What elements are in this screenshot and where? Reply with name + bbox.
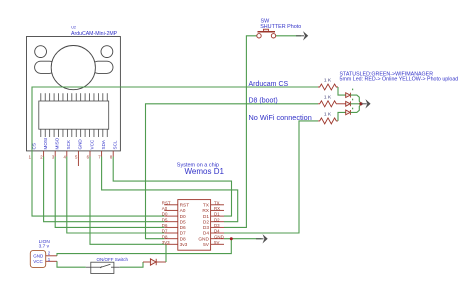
- wire camera VCC to 3V3: [90, 157, 164, 245]
- Wemos inside pin names right: [198, 203, 209, 249]
- wire camera SCL to D1: [113, 157, 231, 217]
- svg-text:U2: U2: [71, 26, 76, 30]
- Wemos inside pin names left: [180, 203, 190, 249]
- wire battery pin1 to switch: [57, 261, 86, 267]
- svg-text:D1: D1: [203, 214, 209, 220]
- svg-text:TX: TX: [203, 203, 210, 209]
- svg-text:SCK: SCK: [66, 139, 71, 149]
- svg-text:D8 (boot): D8 (boot): [249, 98, 278, 105]
- wire R3 to LED blue anode: [338, 112, 346, 121]
- camera module U2 body: [27, 37, 121, 151]
- svg-text:1 K: 1 K: [324, 78, 332, 84]
- wire R2 to LED green anode: [338, 103, 346, 105]
- resistor R1 1K: [318, 78, 338, 90]
- svg-text:GND: GND: [214, 234, 224, 239]
- svg-text:A0: A0: [162, 206, 168, 211]
- svg-text:5V: 5V: [214, 240, 219, 245]
- battery BT1: [30, 251, 45, 268]
- svg-text:GND: GND: [33, 253, 44, 258]
- note STATUSLED: [340, 72, 459, 83]
- svg-text:1 K: 1 K: [324, 94, 332, 100]
- svg-text:5V: 5V: [203, 242, 210, 248]
- battery pin numbers: [48, 250, 51, 262]
- svg-text:ON/OFF Switch: ON/OFF Switch: [97, 257, 129, 262]
- wire camera CS down to D0: [32, 157, 164, 217]
- svg-text:D7: D7: [180, 231, 186, 237]
- svg-text:ArduCAM-Mini-2MP: ArduCAM-Mini-2MP: [71, 31, 118, 37]
- svg-text:SDA: SDA: [101, 139, 106, 149]
- LED LED1 red element: [346, 93, 351, 98]
- junction LED cathode node: [359, 102, 362, 105]
- svg-text:A0: A0: [180, 208, 186, 214]
- svg-text:TX: TX: [214, 200, 220, 205]
- camera pin labels CS MOSI MISO SCK GND VCC SDA SCL: [31, 137, 117, 149]
- resistor R2 1K: [318, 94, 338, 107]
- wire SW to ground arrow: [276, 35, 301, 37]
- ground arrow at GND pin: [256, 234, 268, 243]
- switch S1 body: [86, 262, 120, 273]
- svg-text:SCL: SCL: [113, 140, 118, 149]
- svg-text:3.7 v: 3.7 v: [39, 244, 50, 250]
- camera module U2 label: [71, 26, 118, 37]
- svg-text:RX: RX: [214, 206, 220, 211]
- svg-text:VCC: VCC: [89, 139, 94, 149]
- svg-text:D6: D6: [180, 225, 186, 231]
- svg-text:3v3: 3v3: [180, 242, 188, 248]
- wire camera CS up to Arducam CS row: [32, 87, 318, 157]
- wire switch to diode: [120, 262, 143, 267]
- wire camera SCK to D7: [67, 157, 165, 234]
- camera pin stubs pins 1-8: [32, 151, 113, 166]
- wire camera MISO to D6: [55, 157, 164, 228]
- svg-text:Wemos D1: Wemos D1: [185, 167, 225, 176]
- wire D8 boot net: [146, 104, 319, 239]
- diode D1: [143, 259, 166, 265]
- LED pin number marks: [352, 89, 353, 110]
- wire diode to 3V3: [165, 244, 167, 262]
- svg-text:RX: RX: [202, 208, 209, 214]
- Wemos right pin stubs: [211, 205, 224, 245]
- svg-text:D2: D2: [214, 217, 220, 222]
- svg-text:MOSI: MOSI: [43, 138, 48, 150]
- svg-text:Arducam CS: Arducam CS: [249, 81, 289, 88]
- wire GND stub to arrow: [224, 238, 262, 240]
- svg-text:GND: GND: [78, 139, 83, 150]
- svg-text:MISO: MISO: [55, 137, 60, 149]
- Wemos D1 titles: [177, 163, 225, 176]
- wire LED cathodes to common node: [350, 95, 362, 112]
- wire battery pin2 to GND junction: [57, 239, 231, 256]
- svg-text:GND: GND: [198, 236, 209, 242]
- LED LED1 green element: [346, 101, 351, 106]
- pushbutton SW labels: [260, 18, 301, 29]
- wire SW to D3: [224, 36, 257, 228]
- resistor R3 1K: [318, 112, 338, 124]
- pushbutton SW: [257, 29, 276, 38]
- svg-text:1 K: 1 K: [324, 112, 332, 118]
- wire camera MOSI to D5: [44, 157, 165, 222]
- svg-text:No WiFi connection: No WiFi connection: [249, 113, 312, 122]
- ground arrow at LED: [361, 99, 371, 108]
- op-amp U1 Wemos D1 chip body: [178, 200, 211, 251]
- ground arrow at SW: [296, 31, 308, 40]
- wire camera SDA to D2: [102, 157, 238, 222]
- wire R1 to LED red anode: [338, 87, 346, 95]
- camera DIP connector: [39, 93, 109, 137]
- LED LED1 blue element: [346, 110, 351, 115]
- svg-text:VCC: VCC: [33, 259, 43, 264]
- camera pin numbers 1-8: [29, 155, 113, 160]
- wire D4 to No WiFi resistor: [224, 121, 318, 233]
- svg-text:D2: D2: [203, 219, 209, 225]
- svg-text:D1: D1: [214, 212, 220, 217]
- junction GND node: [230, 237, 233, 240]
- battery LION labels: [39, 239, 51, 250]
- svg-text:RST: RST: [180, 203, 190, 209]
- Wemos outside net labels left: [162, 200, 171, 245]
- svg-text:D3: D3: [203, 225, 209, 231]
- svg-text:D5: D5: [180, 219, 186, 225]
- svg-text:D8: D8: [180, 236, 186, 242]
- Wemos left pin stubs: [164, 205, 178, 245]
- svg-text:D4: D4: [203, 231, 209, 237]
- svg-text:D0: D0: [180, 214, 186, 220]
- svg-text:RST: RST: [162, 200, 171, 205]
- Wemos outside net labels right: [214, 200, 224, 245]
- battery pin stubs: [46, 256, 57, 261]
- svg-text:5mm Led: RED-> Online YELLOW->: 5mm Led: RED-> Online YELLOW-> Photo upl…: [340, 77, 459, 83]
- svg-text:D3: D3: [214, 223, 220, 228]
- svg-text:D4: D4: [214, 229, 220, 234]
